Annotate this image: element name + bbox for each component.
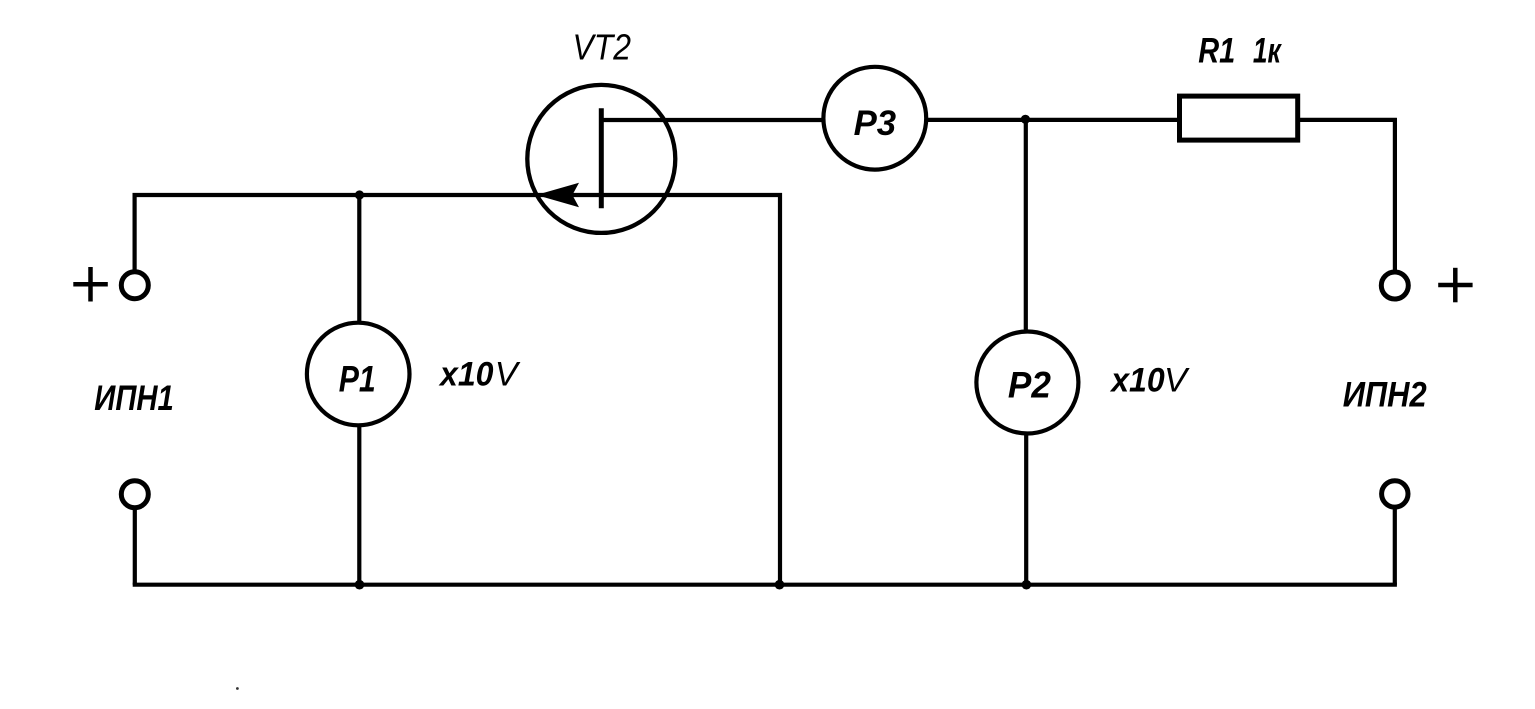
meter P1 circle [307, 323, 410, 426]
wire: P2 riser bottom [1024, 434, 1028, 585]
plus sign right [1438, 268, 1472, 303]
wire: resistor to right column [1300, 118, 1397, 122]
svg-text:1к: 1к [1253, 31, 1283, 70]
meter P3 circle [823, 67, 926, 170]
svg-text:V: V [495, 356, 521, 394]
svg-text:ИПН1: ИПН1 [94, 378, 174, 418]
svg-text:P1: P1 [339, 358, 376, 399]
terminal circle ИПН2 bottom [1382, 481, 1408, 507]
plus sign left [73, 267, 108, 302]
node dot on gate wire at P1 column [355, 190, 364, 199]
wire: source drop from gate-wire corner to rail [778, 193, 782, 585]
transistor VT2 gate arrowhead [539, 184, 578, 206]
wire: P3 to resistor R1 [928, 118, 1178, 122]
terminal circle ИПН1 bottom [121, 481, 148, 508]
terminal circle ИПН2 + [1381, 272, 1408, 299]
svg-text:x10: x10 [438, 356, 493, 394]
svg-text:ИПН2: ИПН2 [1343, 375, 1427, 415]
meter P2 circle [976, 332, 1078, 434]
svg-text:VT2: VT2 [573, 27, 632, 68]
svg-text:P3: P3 [854, 104, 897, 143]
svg-text:V: V [1164, 361, 1190, 399]
node dot on top wire at P2 column [1021, 115, 1030, 124]
terminal circle ИПН1 + [121, 272, 148, 299]
svg-text:x10: x10 [1109, 361, 1164, 399]
wire: right riser down to ИПН2 plus terminal [1393, 118, 1397, 271]
wire: drop from ИПН1 bottom terminal to rail corner [133, 509, 137, 585]
wire: P2 riser top [1024, 120, 1028, 332]
resistor R1 body [1180, 96, 1298, 140]
wire: drop from ИПН2 bottom terminal to rail corner [1393, 508, 1397, 585]
transistor VT2 circle [527, 85, 675, 233]
node dot rail at P1 column [355, 580, 365, 590]
transistor VT2 channel bar [599, 108, 604, 208]
node dot rail at P2 column [1022, 580, 1032, 590]
wire: left riser from gate wire down to ИПН1 plus terminal [133, 193, 137, 271]
wire: gate wire horizontal y=195 from left column to source-drop corner [133, 193, 783, 197]
wire: P1 riser top [357, 195, 361, 323]
wire: drain wire from bar to P3 [601, 118, 823, 122]
svg-text:P2: P2 [1008, 365, 1051, 406]
wire: P1 riser bottom [357, 426, 361, 585]
stray speck [236, 687, 239, 690]
node dot rail at source column [775, 580, 785, 590]
wire: bottom rail [133, 583, 1397, 587]
svg-text:R1: R1 [1198, 31, 1235, 70]
